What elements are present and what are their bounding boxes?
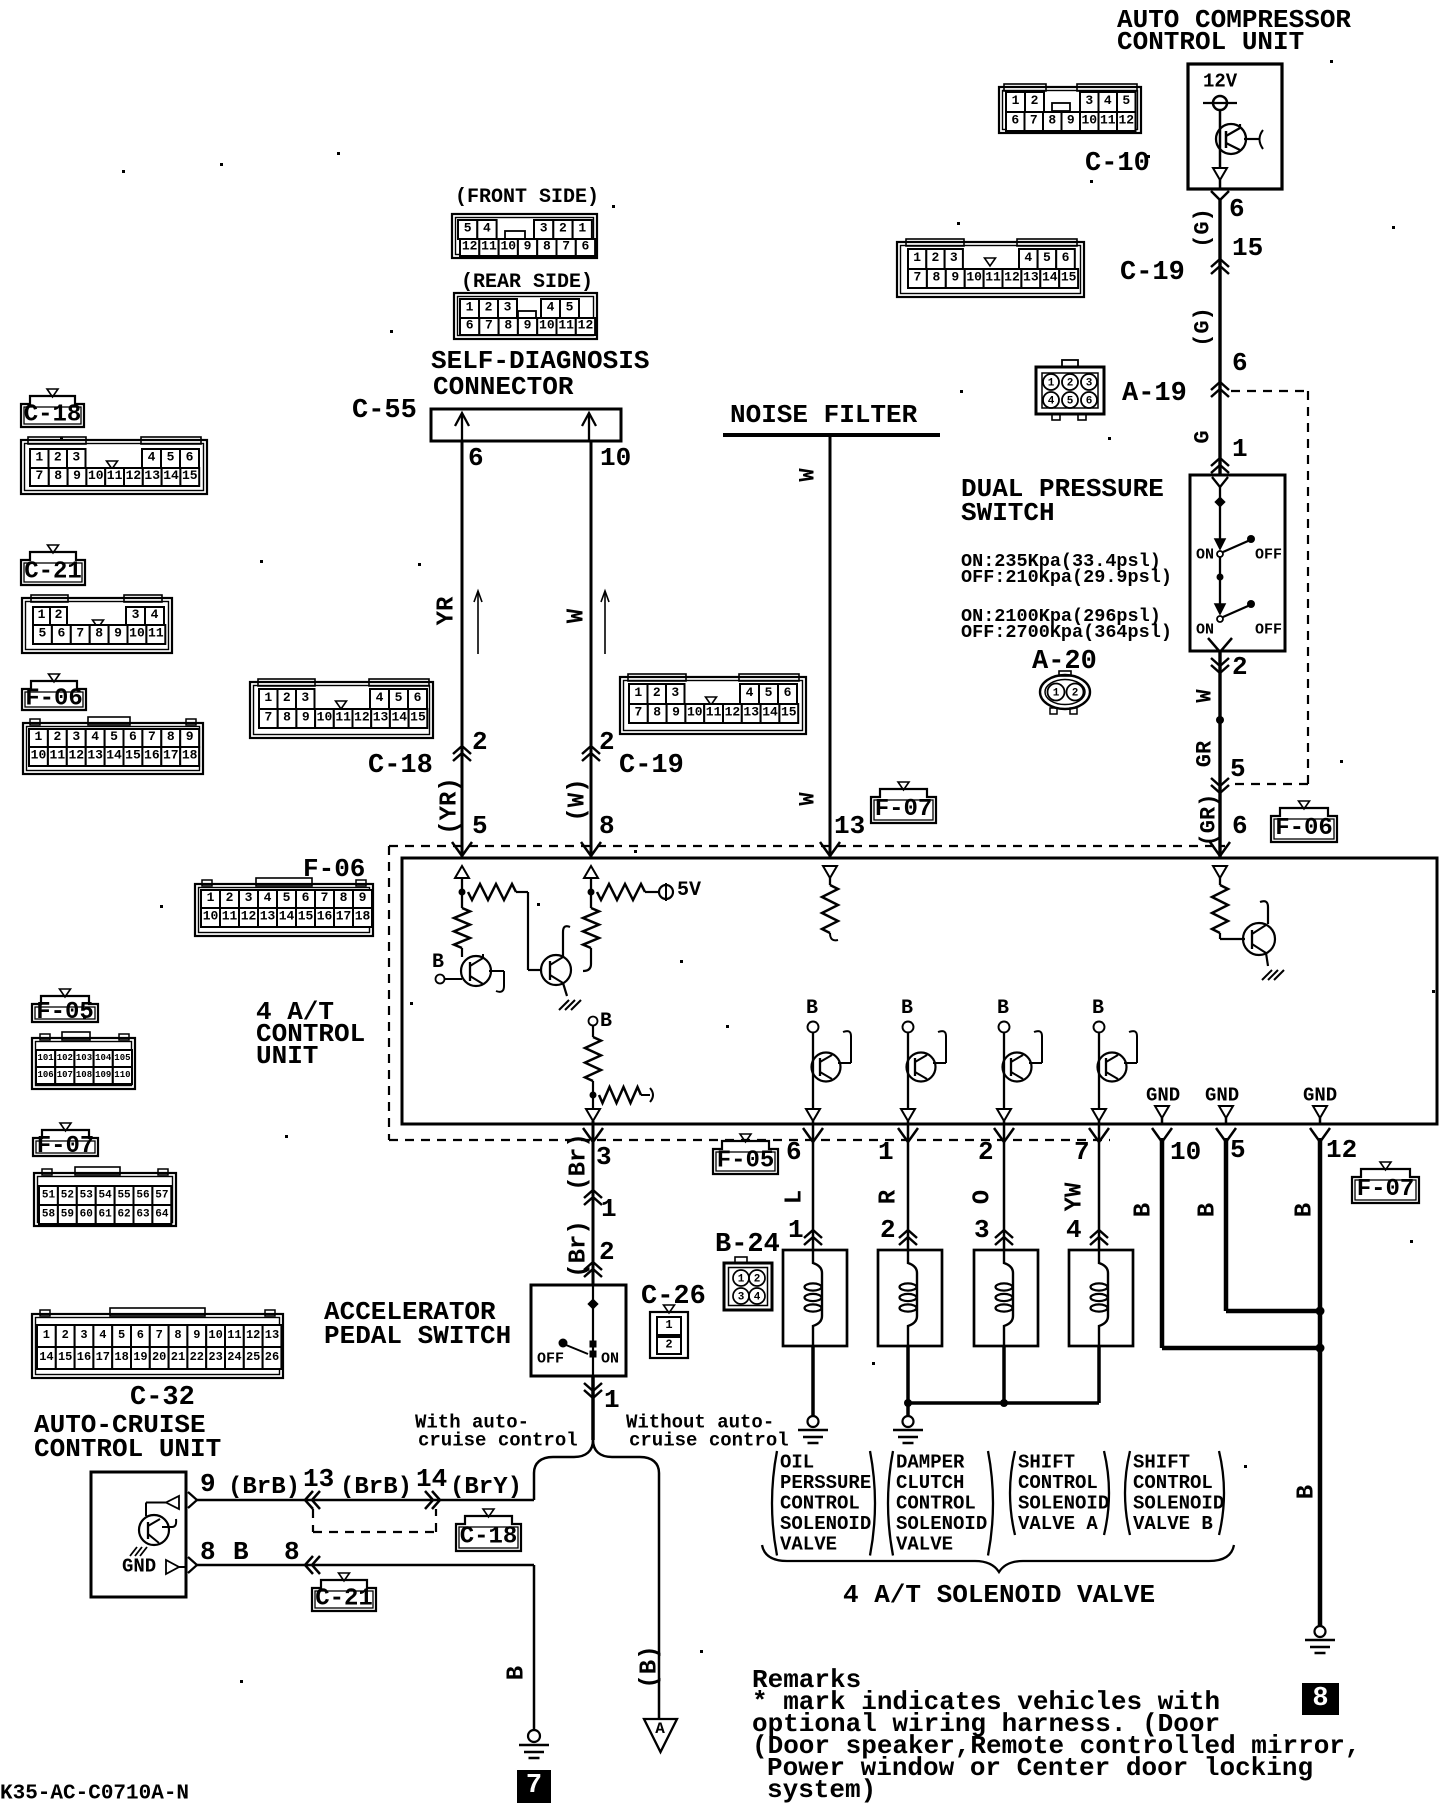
svg-text:18: 18: [355, 909, 371, 924]
svg-text:1: 1: [207, 890, 215, 905]
svg-text:GND: GND: [1205, 1084, 1239, 1106]
svg-text:12: 12: [241, 909, 257, 924]
svg-text:cruise control: cruise control: [629, 1429, 789, 1451]
svg-text:8: 8: [504, 318, 512, 333]
svg-text:2: 2: [283, 690, 291, 705]
svg-text:4: 4: [264, 890, 272, 905]
svg-text:10: 10: [31, 748, 47, 763]
svg-text:10: 10: [88, 468, 104, 483]
svg-text:6: 6: [137, 1328, 144, 1342]
svg-text:4: 4: [754, 1292, 761, 1304]
svg-text:1: 1: [264, 690, 272, 705]
svg-text:17: 17: [96, 1350, 110, 1364]
svg-text:56: 56: [136, 1189, 149, 1201]
svg-text:12: 12: [1118, 113, 1134, 128]
svg-text:B: B: [806, 997, 818, 1020]
svg-text:8: 8: [543, 239, 551, 254]
svg-text:SWITCH: SWITCH: [961, 498, 1055, 528]
svg-text:13: 13: [260, 909, 276, 924]
svg-text:106: 106: [37, 1070, 53, 1080]
svg-text:OFF:2700Kpa(364psl): OFF:2700Kpa(364psl): [961, 622, 1172, 643]
svg-text:SOLENOID: SOLENOID: [780, 1513, 871, 1535]
svg-text:6: 6: [1232, 348, 1248, 378]
svg-text:F-07: F-07: [37, 1133, 95, 1160]
svg-text:VALVE: VALVE: [896, 1533, 953, 1555]
svg-text:64: 64: [155, 1208, 169, 1220]
svg-text:8: 8: [653, 705, 661, 720]
svg-text:6: 6: [582, 239, 590, 254]
svg-text:B: B: [1195, 1203, 1222, 1217]
svg-text:11: 11: [222, 909, 238, 924]
svg-text:C-19: C-19: [619, 751, 684, 781]
svg-text:11: 11: [558, 318, 574, 333]
svg-text:4: 4: [1048, 396, 1055, 408]
svg-text:5: 5: [472, 811, 488, 841]
svg-text:5: 5: [1122, 93, 1130, 108]
svg-text:16: 16: [317, 909, 333, 924]
svg-text:CONTROL: CONTROL: [1018, 1472, 1098, 1494]
svg-text:G: G: [1191, 430, 1216, 443]
svg-text:59: 59: [61, 1208, 74, 1220]
svg-text:21: 21: [171, 1350, 185, 1364]
svg-text:1: 1: [604, 1385, 620, 1415]
svg-text:2: 2: [978, 1137, 994, 1167]
svg-text:14: 14: [1042, 270, 1058, 285]
svg-text:15: 15: [781, 705, 797, 720]
svg-text:VALVE B: VALVE B: [1133, 1513, 1213, 1535]
svg-text:C-10: C-10: [1085, 149, 1150, 179]
svg-text:2: 2: [226, 890, 234, 905]
svg-text:11: 11: [1100, 113, 1116, 128]
svg-text:16: 16: [144, 748, 160, 763]
svg-text:W: W: [796, 468, 821, 482]
svg-text:4: 4: [148, 450, 156, 465]
svg-text:1: 1: [35, 729, 43, 744]
svg-text:10: 10: [317, 710, 333, 725]
svg-text:GR: GR: [1193, 740, 1218, 767]
svg-text:4: 4: [91, 729, 99, 744]
svg-text:19: 19: [133, 1350, 147, 1364]
svg-text:B: B: [1294, 1485, 1321, 1499]
svg-text:57: 57: [155, 1189, 168, 1201]
svg-text:5: 5: [167, 450, 175, 465]
svg-text:1: 1: [38, 607, 46, 622]
svg-text:B: B: [1131, 1203, 1158, 1217]
svg-text:3: 3: [1086, 378, 1093, 390]
svg-text:22: 22: [190, 1350, 204, 1364]
svg-text:4: 4: [99, 1328, 106, 1342]
svg-text:cruise control: cruise control: [418, 1429, 578, 1451]
svg-text:12: 12: [1004, 270, 1020, 285]
svg-text:13: 13: [743, 705, 759, 720]
svg-text:3: 3: [738, 1292, 745, 1304]
svg-text:6: 6: [1062, 250, 1070, 265]
svg-text:C-18: C-18: [368, 751, 433, 781]
svg-text:108: 108: [76, 1070, 92, 1080]
svg-text:12: 12: [246, 1328, 260, 1342]
svg-text:14: 14: [391, 710, 407, 725]
svg-text:CONTROL: CONTROL: [896, 1492, 976, 1514]
svg-text:13: 13: [87, 748, 103, 763]
svg-text:8: 8: [167, 729, 175, 744]
svg-text:9: 9: [672, 705, 680, 720]
svg-text:(REAR SIDE): (REAR SIDE): [461, 271, 593, 294]
svg-text:9: 9: [1067, 113, 1075, 128]
svg-text:3: 3: [80, 1328, 87, 1342]
svg-text:11: 11: [107, 468, 123, 483]
svg-text:4: 4: [376, 690, 384, 705]
svg-text:52: 52: [61, 1189, 74, 1201]
svg-text:2: 2: [1072, 688, 1079, 700]
svg-text:B-24: B-24: [715, 1230, 780, 1260]
svg-text:3: 3: [596, 1142, 612, 1172]
svg-text:2: 2: [1031, 93, 1039, 108]
svg-text:7: 7: [264, 710, 272, 725]
svg-text:A-20: A-20: [1032, 647, 1097, 677]
svg-text:13: 13: [144, 468, 160, 483]
svg-text:105: 105: [114, 1053, 130, 1063]
svg-text:(YR): (YR): [437, 777, 464, 835]
svg-text:13: 13: [265, 1328, 279, 1342]
svg-text:GND: GND: [1303, 1084, 1337, 1106]
svg-text:C-18: C-18: [24, 401, 82, 428]
svg-text:DAMPER: DAMPER: [896, 1451, 965, 1473]
svg-text:1: 1: [738, 1274, 745, 1286]
svg-text:102: 102: [57, 1053, 73, 1063]
svg-text:26: 26: [265, 1350, 279, 1364]
svg-text:5: 5: [1230, 754, 1246, 784]
svg-text:1: 1: [1048, 378, 1055, 390]
svg-text:7: 7: [76, 626, 84, 641]
svg-text:ON: ON: [601, 1351, 619, 1368]
svg-text:7: 7: [914, 270, 922, 285]
svg-text:PEDAL SWITCH: PEDAL SWITCH: [324, 1321, 511, 1351]
svg-text:9: 9: [193, 1328, 200, 1342]
svg-text:(G): (G): [1191, 208, 1216, 248]
svg-text:12: 12: [68, 748, 84, 763]
svg-text:3: 3: [245, 890, 253, 905]
svg-text:4: 4: [483, 221, 491, 236]
svg-text:A: A: [655, 1720, 665, 1738]
svg-text:10: 10: [539, 318, 555, 333]
svg-text:109: 109: [95, 1070, 111, 1080]
svg-text:12: 12: [1326, 1135, 1357, 1165]
svg-text:3: 3: [974, 1215, 990, 1245]
svg-text:1: 1: [634, 685, 642, 700]
svg-text:10: 10: [1081, 113, 1097, 128]
svg-text:10: 10: [966, 270, 982, 285]
svg-text:B: B: [1292, 1203, 1319, 1217]
svg-text:W: W: [796, 792, 821, 806]
svg-text:7: 7: [485, 318, 493, 333]
svg-text:ON: ON: [1196, 547, 1214, 564]
svg-text:SHIFT: SHIFT: [1133, 1451, 1190, 1473]
svg-text:2: 2: [485, 300, 493, 315]
svg-text:18: 18: [114, 1350, 128, 1364]
svg-text:1: 1: [878, 1137, 894, 1167]
svg-text:OFF: OFF: [537, 1351, 564, 1368]
svg-text:23: 23: [208, 1350, 222, 1364]
svg-text:8: 8: [283, 710, 291, 725]
svg-text:6: 6: [414, 690, 422, 705]
svg-text:1: 1: [578, 221, 586, 236]
svg-text:9: 9: [200, 1469, 216, 1499]
svg-text:3: 3: [540, 221, 548, 236]
svg-text:25: 25: [246, 1350, 260, 1364]
svg-text:6: 6: [1086, 396, 1093, 408]
svg-text:61: 61: [99, 1208, 113, 1220]
svg-text:CONTROL: CONTROL: [780, 1492, 860, 1514]
svg-text:(GR): (GR): [1197, 794, 1222, 847]
svg-text:14: 14: [279, 909, 295, 924]
svg-text:NOISE FILTER: NOISE FILTER: [730, 400, 918, 430]
svg-text:4: 4: [151, 607, 159, 622]
svg-text:PERSSURE: PERSSURE: [780, 1472, 871, 1494]
svg-text:13: 13: [834, 811, 865, 841]
svg-text:system): system): [767, 1775, 876, 1805]
svg-text:16: 16: [77, 1350, 91, 1364]
svg-text:2: 2: [1067, 378, 1074, 390]
svg-text:3: 3: [72, 450, 80, 465]
svg-text:W: W: [564, 608, 591, 623]
svg-text:C-55: C-55: [352, 396, 417, 426]
svg-text:C-21: C-21: [315, 1585, 373, 1612]
svg-text:F-05: F-05: [36, 999, 94, 1026]
svg-text:OFF:210Kpa(29.9psl): OFF:210Kpa(29.9psl): [961, 567, 1172, 588]
svg-text:11: 11: [50, 748, 66, 763]
svg-text:5: 5: [765, 685, 773, 700]
svg-text:B: B: [432, 951, 444, 974]
svg-text:104: 104: [95, 1053, 112, 1063]
svg-text:3: 3: [1085, 93, 1093, 108]
svg-text:1: 1: [913, 250, 921, 265]
svg-text:9: 9: [524, 318, 532, 333]
svg-text:CONTROL UNIT: CONTROL UNIT: [1117, 27, 1304, 57]
svg-text:C-18: C-18: [460, 1523, 518, 1550]
svg-text:3: 3: [72, 729, 80, 744]
svg-text:6: 6: [784, 685, 792, 700]
svg-text:12: 12: [354, 710, 370, 725]
svg-text:1: 1: [601, 1194, 617, 1224]
svg-text:6: 6: [786, 1137, 802, 1167]
svg-text:CONNECTOR: CONNECTOR: [433, 372, 574, 402]
svg-text:5: 5: [464, 221, 472, 236]
svg-text:UNIT: UNIT: [256, 1041, 318, 1071]
svg-text:2: 2: [55, 607, 63, 622]
svg-text:SOLENOID: SOLENOID: [896, 1513, 987, 1535]
svg-text:9: 9: [359, 890, 367, 905]
svg-text:2: 2: [754, 1274, 761, 1286]
svg-text:5: 5: [39, 626, 47, 641]
svg-text:W: W: [1193, 689, 1218, 703]
svg-text:14: 14: [163, 468, 179, 483]
svg-text:8: 8: [284, 1537, 300, 1567]
svg-text:1: 1: [1232, 434, 1248, 464]
svg-text:(BrB): (BrB): [340, 1474, 412, 1501]
svg-text:11: 11: [335, 710, 351, 725]
svg-text:12V: 12V: [1203, 70, 1238, 92]
svg-text:4: 4: [1104, 93, 1112, 108]
svg-text:103: 103: [76, 1053, 92, 1063]
svg-text:9: 9: [302, 710, 310, 725]
svg-text:14: 14: [416, 1464, 447, 1494]
svg-text:5: 5: [118, 1328, 125, 1342]
svg-text:10: 10: [129, 626, 145, 641]
svg-text:3: 3: [950, 250, 958, 265]
svg-text:7: 7: [148, 729, 156, 744]
svg-text:(Br): (Br): [566, 1220, 593, 1278]
svg-text:1: 1: [665, 1318, 672, 1332]
svg-text:C-21: C-21: [24, 558, 82, 585]
svg-text:2: 2: [599, 727, 615, 757]
svg-text:10: 10: [1170, 1137, 1201, 1167]
svg-text:5: 5: [1067, 396, 1074, 408]
svg-text:L: L: [782, 1190, 809, 1204]
svg-text:2: 2: [1232, 652, 1248, 682]
svg-text:12: 12: [126, 468, 142, 483]
svg-text:8: 8: [599, 811, 615, 841]
svg-text:4: 4: [1024, 250, 1032, 265]
svg-text:1: 1: [43, 1328, 50, 1342]
svg-text:YW: YW: [1062, 1182, 1089, 1211]
svg-text:6: 6: [129, 729, 137, 744]
svg-text:7: 7: [562, 239, 570, 254]
svg-text:1: 1: [788, 1215, 804, 1245]
svg-text:17: 17: [163, 748, 179, 763]
svg-text:8: 8: [932, 270, 940, 285]
svg-text:7: 7: [634, 705, 642, 720]
svg-text:15: 15: [410, 710, 426, 725]
svg-text:2: 2: [932, 250, 940, 265]
svg-text:11: 11: [227, 1328, 241, 1342]
svg-text:12: 12: [725, 705, 741, 720]
svg-text:4: 4: [746, 685, 754, 700]
svg-text:55: 55: [117, 1189, 131, 1201]
svg-text:F-06: F-06: [1275, 815, 1333, 842]
svg-text:8: 8: [54, 468, 62, 483]
svg-text:110: 110: [114, 1070, 130, 1080]
svg-text:63: 63: [136, 1208, 150, 1220]
svg-text:10: 10: [203, 909, 219, 924]
svg-text:6: 6: [468, 443, 484, 473]
svg-text:1: 1: [466, 300, 474, 315]
svg-text:101: 101: [37, 1053, 54, 1063]
svg-text:62: 62: [117, 1208, 130, 1220]
svg-text:1: 1: [1053, 688, 1060, 700]
svg-text:4 A/T SOLENOID VALVE: 4 A/T SOLENOID VALVE: [843, 1580, 1155, 1610]
svg-text:5: 5: [1043, 250, 1051, 265]
svg-text:9: 9: [186, 729, 194, 744]
svg-text:20: 20: [152, 1350, 166, 1364]
svg-text:6: 6: [186, 450, 194, 465]
svg-text:6: 6: [57, 626, 65, 641]
svg-text:13: 13: [1023, 270, 1039, 285]
svg-text:R: R: [876, 1189, 903, 1204]
svg-text:11: 11: [148, 626, 164, 641]
svg-text:14: 14: [39, 1350, 53, 1364]
svg-text:10: 10: [208, 1328, 222, 1342]
svg-text:6: 6: [302, 890, 310, 905]
svg-text:3: 3: [132, 607, 140, 622]
svg-text:(BrY): (BrY): [450, 1474, 522, 1501]
svg-text:7: 7: [321, 890, 329, 905]
svg-text:11: 11: [706, 705, 722, 720]
svg-text:2: 2: [62, 1328, 69, 1342]
svg-text:B: B: [233, 1537, 249, 1567]
svg-text:7: 7: [35, 468, 43, 483]
svg-text:5: 5: [1230, 1135, 1246, 1165]
svg-text:13: 13: [373, 710, 389, 725]
svg-text:7: 7: [526, 1771, 542, 1801]
svg-text:8: 8: [340, 890, 348, 905]
svg-text:YR: YR: [434, 596, 461, 625]
svg-text:5: 5: [283, 890, 291, 905]
svg-text:10: 10: [500, 239, 516, 254]
svg-text:18: 18: [182, 748, 198, 763]
svg-text:6: 6: [1229, 194, 1245, 224]
svg-text:15: 15: [1232, 233, 1263, 263]
svg-text:14: 14: [106, 748, 122, 763]
svg-text:OFF: OFF: [1255, 547, 1282, 564]
svg-text:5: 5: [566, 300, 574, 315]
svg-text:14: 14: [762, 705, 778, 720]
svg-text:58: 58: [42, 1208, 56, 1220]
svg-text:15: 15: [125, 748, 141, 763]
svg-text:2: 2: [665, 1338, 672, 1352]
svg-text:1: 1: [35, 450, 43, 465]
svg-text:9: 9: [114, 626, 122, 641]
svg-text:GND: GND: [1146, 1084, 1180, 1106]
svg-text:C-19: C-19: [1120, 258, 1185, 288]
svg-text:1: 1: [1012, 93, 1020, 108]
svg-text:15: 15: [182, 468, 198, 483]
svg-text:15: 15: [1061, 270, 1077, 285]
svg-text:CLUTCH: CLUTCH: [896, 1472, 964, 1494]
svg-text:2: 2: [880, 1215, 896, 1245]
svg-text:2: 2: [653, 685, 661, 700]
svg-text:11: 11: [985, 270, 1001, 285]
svg-text:8: 8: [1312, 1684, 1328, 1714]
svg-text:6: 6: [466, 318, 474, 333]
svg-text:(FRONT SIDE): (FRONT SIDE): [455, 186, 599, 209]
svg-text:8: 8: [1048, 113, 1056, 128]
svg-text:OFF: OFF: [1255, 622, 1282, 639]
svg-text:9: 9: [524, 239, 532, 254]
svg-text:(G): (G): [1191, 307, 1216, 347]
svg-text:7: 7: [1030, 113, 1038, 128]
svg-text:ON: ON: [1196, 622, 1214, 639]
svg-text:SOLENOID: SOLENOID: [1133, 1492, 1224, 1514]
svg-text:3: 3: [671, 685, 679, 700]
svg-text:(W): (W): [565, 778, 592, 821]
svg-text:F-07: F-07: [875, 796, 933, 823]
svg-text:F-05: F-05: [717, 1147, 775, 1174]
svg-text:B: B: [997, 997, 1009, 1020]
svg-text:3: 3: [301, 690, 309, 705]
svg-text:3: 3: [504, 300, 512, 315]
svg-text:(Br): (Br): [566, 1133, 593, 1191]
svg-text:7: 7: [156, 1328, 163, 1342]
svg-text:F-06: F-06: [25, 685, 83, 712]
svg-text:10: 10: [687, 705, 703, 720]
svg-text:F-07: F-07: [1357, 1176, 1415, 1203]
svg-text:O: O: [970, 1190, 997, 1204]
svg-text:9: 9: [951, 270, 959, 285]
svg-text:2: 2: [53, 729, 61, 744]
svg-text:15: 15: [58, 1350, 72, 1364]
svg-text:CONTROL UNIT: CONTROL UNIT: [34, 1434, 221, 1464]
svg-text:5: 5: [110, 729, 118, 744]
